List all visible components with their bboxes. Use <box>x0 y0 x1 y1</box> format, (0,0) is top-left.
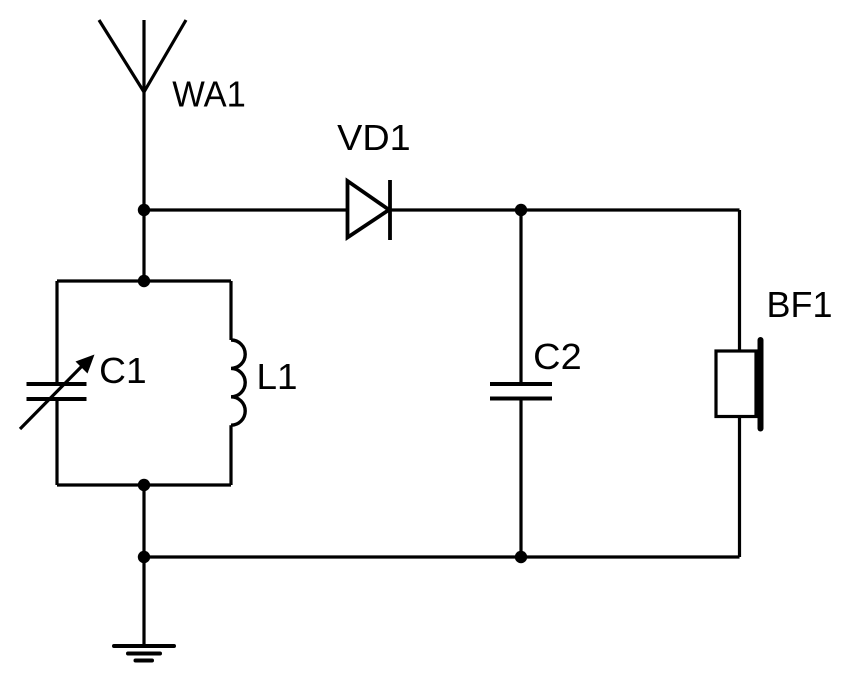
wire tank left lower <box>55 399 58 485</box>
svg-text:WA1: WA1 <box>172 74 246 115</box>
node tank-bottom junction dot <box>138 479 150 491</box>
wire right branch upper <box>738 210 741 351</box>
wire antenna to top node <box>142 92 145 281</box>
wire to ground <box>142 557 145 646</box>
wire node A to diode anode <box>144 208 348 211</box>
wire tank right lower <box>229 425 232 485</box>
speaker BF1 <box>716 340 761 429</box>
wire tank bottom rail <box>57 483 231 486</box>
wire tank top rail <box>57 279 231 282</box>
wire diode cathode to node B <box>390 208 740 211</box>
diode VD1 <box>348 180 391 240</box>
node C2-bottom junction dot <box>515 551 527 563</box>
wire bottom rail <box>144 555 740 558</box>
node B junction dot <box>515 204 527 216</box>
node A junction dot <box>138 204 150 216</box>
svg-text:L1: L1 <box>257 356 298 397</box>
wire tank left upper <box>55 281 58 384</box>
wire C2 upper <box>519 210 522 384</box>
svg-text:BF1: BF1 <box>767 284 833 325</box>
wire tank right upper <box>229 281 232 340</box>
ground <box>114 646 174 661</box>
svg-text:C1: C1 <box>99 350 147 391</box>
node ground-rail junction dot <box>138 551 150 563</box>
svg-text:VD1: VD1 <box>337 117 411 158</box>
antenna WA1 <box>99 20 186 92</box>
wire right branch lower <box>738 417 741 558</box>
node tank-top junction dot <box>138 275 150 287</box>
wire tank bottom to ground rail <box>142 485 145 557</box>
svg-text:C2: C2 <box>533 336 582 377</box>
inductor L1 <box>231 340 245 425</box>
wire C2 lower <box>519 399 522 558</box>
capacitor C1 (variable) <box>27 384 87 399</box>
capacitor C2 <box>490 384 552 399</box>
arrow of C1 <box>20 355 95 430</box>
